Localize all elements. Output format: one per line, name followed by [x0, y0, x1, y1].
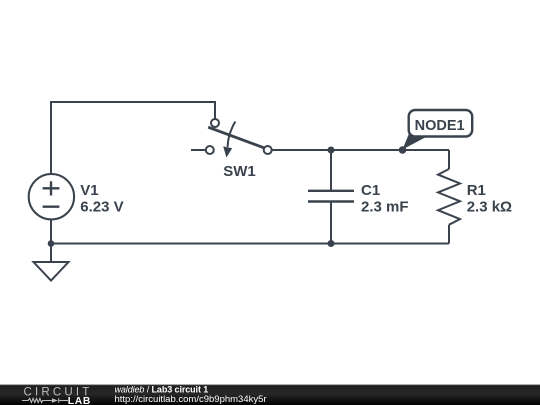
wire resistor top [448, 150, 450, 169]
svg-text:http://circuitlab.com/c9b9phm3: http://circuitlab.com/c9b9phm34ky5r [115, 394, 267, 405]
capacitor C1 plates [308, 191, 354, 202]
voltage source V1 [29, 174, 74, 219]
node NODE1 pointer [403, 134, 428, 150]
resistor R1 zigzag [438, 169, 460, 225]
wire resistor bottom [448, 225, 450, 244]
wire capacitor bottom [330, 203, 332, 244]
wire ground stub [50, 244, 52, 263]
svg-text:NODE1: NODE1 [415, 118, 465, 134]
switch SW1 [206, 119, 272, 158]
footer bar [0, 385, 540, 405]
wire capacitor top [330, 150, 332, 190]
svg-text:6.23 V: 6.23 V [80, 199, 123, 216]
logo waveform [22, 398, 68, 403]
svg-text:R1: R1 [467, 182, 486, 199]
wire switch left stub [191, 149, 206, 151]
wire V1 bottom [50, 219, 52, 244]
wire top loop [51, 102, 215, 176]
junction dot bottom capacitor [328, 240, 335, 247]
node NODE1 callout box [409, 110, 473, 137]
logo diode [52, 398, 58, 403]
ground [34, 262, 69, 281]
node NODE1 junction dot [399, 146, 407, 154]
svg-text:waldieb / Lab3 circuit 1: waldieb / Lab3 circuit 1 [115, 385, 209, 395]
junction dot capacitor top [328, 147, 335, 154]
svg-text:2.3 mF: 2.3 mF [361, 199, 409, 216]
svg-text:LAB: LAB [68, 396, 91, 405]
svg-text:SW1: SW1 [223, 163, 256, 180]
svg-text:V1: V1 [80, 182, 98, 199]
footer bar top highlight [0, 384, 540, 387]
wire mid [272, 149, 450, 151]
svg-text:2.3 kΩ: 2.3 kΩ [467, 199, 512, 216]
svg-text:C1: C1 [361, 182, 380, 199]
wire bottom [51, 243, 449, 245]
junction dot bottom-left [48, 240, 55, 247]
